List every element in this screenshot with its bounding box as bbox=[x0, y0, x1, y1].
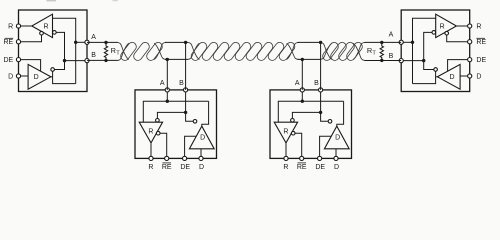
receiver U4.R enable bubble bbox=[445, 31, 449, 35]
driver U1.D triangle bbox=[28, 64, 51, 89]
wire U3 receiver non-inverting input / A rail bbox=[278, 101, 343, 122]
wire U4 D pin to driver input bbox=[460, 75, 470, 77]
twisted pair segment 2 bbox=[190, 41, 209, 62]
driver U3.D inverted output bubble bbox=[328, 120, 332, 124]
wire U4 RE pin to receiver enable bbox=[447, 35, 470, 42]
twisted pair segment 2 entry bbox=[187, 42, 199, 59]
pin U1.DE terminal bbox=[16, 58, 20, 62]
junction RT2 top dot bbox=[380, 41, 383, 44]
receiver U1.R enable bubble bbox=[40, 31, 44, 35]
svg-text:RE: RE bbox=[3, 39, 13, 46]
svg-text:B: B bbox=[179, 80, 184, 87]
wire U1 receiver non-inverting input / A rail bbox=[53, 18, 76, 83]
wire U3 B stub bbox=[320, 42, 322, 90]
wire U4 R pin to receiver output bbox=[456, 25, 469, 27]
svg-text:A: A bbox=[295, 80, 300, 87]
svg-text:R: R bbox=[283, 164, 288, 171]
junction U2 A rail dot bbox=[166, 100, 169, 103]
junction U2 B rail dot bbox=[184, 111, 187, 114]
wire stub section 1 bbox=[165, 41, 188, 43]
svg-text:RE: RE bbox=[162, 164, 172, 171]
junction U4 A rail dot bbox=[411, 41, 414, 44]
receiver U3.R enable bubble bbox=[291, 131, 295, 135]
pin U1.R terminal bbox=[16, 24, 20, 28]
wire U4 receiver inverting input to B rail bbox=[424, 32, 432, 60]
wire U1 driver inverted output to B rail bbox=[54, 61, 64, 70]
svg-text:RE: RE bbox=[297, 164, 307, 171]
svg-text:B: B bbox=[389, 53, 394, 60]
wire U2 B internal bbox=[185, 90, 187, 113]
svg-text:D: D bbox=[199, 164, 204, 171]
pin U4.A terminal bbox=[399, 40, 403, 44]
receiver U2.R triangle bbox=[139, 122, 162, 143]
pin U3.D terminal bbox=[334, 156, 338, 160]
svg-text:D: D bbox=[200, 135, 205, 142]
svg-text:DE: DE bbox=[315, 164, 325, 171]
driver U4.D inverted output bubble bbox=[434, 68, 438, 72]
receiver U3.R triangle bbox=[274, 122, 297, 143]
pin U3.B terminal bbox=[319, 88, 323, 92]
driver U1.D inverted output bubble bbox=[51, 68, 55, 72]
wire U2 R pin to receiver output bbox=[150, 143, 152, 159]
transceiver U1 body bbox=[19, 10, 88, 92]
wire U1 B internal bbox=[65, 60, 88, 62]
junction U3 A rail dot bbox=[301, 100, 304, 103]
svg-text:R: R bbox=[43, 23, 48, 30]
wire U2 D pin to driver input bbox=[200, 149, 202, 159]
wire U2 B stub bbox=[185, 42, 187, 90]
svg-text:DE: DE bbox=[180, 164, 190, 171]
svg-text:R: R bbox=[8, 23, 13, 30]
svg-text:D: D bbox=[8, 73, 13, 80]
wire U4 A internal bbox=[401, 41, 412, 43]
wire U3 receiver inverting input to B rail bbox=[292, 112, 320, 118]
twisted pair segment 1 exit bbox=[154, 42, 166, 59]
svg-text:B: B bbox=[314, 80, 319, 87]
wire U1 RE pin to receiver enable bbox=[19, 35, 42, 42]
wire U1 A internal bbox=[76, 41, 87, 43]
wire U3 driver output loop to A rail bbox=[337, 101, 344, 126]
junction U1 B rail dot bbox=[63, 59, 66, 62]
wire U3 B internal bbox=[320, 90, 322, 113]
pin U4.D terminal bbox=[468, 74, 472, 78]
wire U2 A internal bbox=[166, 90, 168, 101]
svg-text:A: A bbox=[160, 80, 165, 87]
wire U1 driver output loop to A rail bbox=[51, 76, 53, 78]
junction RT1 bottom dot bbox=[104, 59, 107, 62]
wire U3 D pin to driver input bbox=[335, 149, 337, 159]
resistor RT2 termination bbox=[380, 42, 383, 60]
pin U1.D terminal bbox=[16, 74, 20, 78]
svg-text:R: R bbox=[148, 164, 153, 171]
svg-text:A: A bbox=[91, 34, 96, 41]
wire U3 R pin to receiver output bbox=[285, 143, 287, 159]
svg-text:R: R bbox=[476, 23, 481, 30]
receiver U2.R enable bubble bbox=[156, 131, 160, 135]
svg-text:D: D bbox=[335, 135, 340, 142]
receiver U4.R inverting input bubble bbox=[432, 31, 436, 35]
wire U1 D pin to driver input bbox=[19, 75, 29, 77]
svg-text:T: T bbox=[116, 50, 120, 56]
receiver U1.R triangle bbox=[32, 14, 53, 37]
receiver U3.R inverting input bubble bbox=[291, 119, 295, 123]
svg-text:D: D bbox=[334, 164, 339, 171]
stray mark top (cropped remnant) bbox=[113, 0, 119, 1]
wire U4 receiver non-inverting input / A rail bbox=[413, 18, 436, 83]
pin U1.A terminal bbox=[85, 40, 89, 44]
driver U2.D inverted output bubble bbox=[193, 120, 197, 124]
junction U1 A rail dot bbox=[74, 41, 77, 44]
pin U4.DE terminal bbox=[468, 58, 472, 62]
wire U2 receiver non-inverting input / A rail bbox=[143, 101, 208, 122]
junction RT1 top dot bbox=[104, 41, 107, 44]
wire U4 DE pin to driver enable bbox=[448, 60, 470, 72]
wire U3 DE pin to driver enable bbox=[320, 136, 332, 158]
twisted pair segment 1 bbox=[119, 41, 138, 62]
pin U2.B terminal bbox=[184, 88, 188, 92]
junction U4 B rail dot bbox=[422, 59, 425, 62]
twisted pair segment 1 entry bbox=[117, 42, 129, 59]
pin U1.B terminal bbox=[85, 59, 89, 63]
wire U2 A stub bbox=[166, 59, 168, 90]
svg-text:R: R bbox=[111, 46, 116, 55]
stray mark top-left (cropped remnant) bbox=[47, 0, 57, 1]
wire U4 driver output loop to A rail bbox=[436, 76, 438, 78]
wire U4 driver inverted output to B rail bbox=[424, 61, 434, 70]
svg-text:D: D bbox=[449, 74, 454, 81]
pin U2.RE terminal bbox=[165, 156, 169, 160]
svg-text:DE: DE bbox=[476, 57, 486, 64]
wire stub section 2 bbox=[298, 41, 322, 43]
wire U3 A internal bbox=[301, 90, 303, 101]
junction U3 B rail dot bbox=[319, 111, 322, 114]
driver U4.D triangle bbox=[437, 64, 460, 89]
wire U4 B internal bbox=[401, 60, 424, 62]
svg-text:A: A bbox=[389, 31, 394, 38]
pin U2.A terminal bbox=[165, 88, 169, 92]
receiver U4.R triangle bbox=[436, 14, 457, 37]
transceiver U4 body bbox=[401, 10, 470, 92]
wire bus A left lead bbox=[87, 41, 118, 43]
driver U2.D triangle bbox=[189, 126, 214, 149]
twisted pair segment 3 exit bbox=[353, 42, 365, 59]
wire U2 RE pin to receiver enable bbox=[160, 133, 167, 158]
svg-text:DE: DE bbox=[3, 57, 13, 64]
wire bus B right lead bbox=[365, 59, 402, 61]
pin U2.DE terminal bbox=[183, 156, 187, 160]
pin U3.DE terminal bbox=[318, 156, 322, 160]
pin U3.A terminal bbox=[300, 88, 304, 92]
driver U3.D triangle bbox=[324, 126, 349, 149]
pin U2.D terminal bbox=[199, 156, 203, 160]
wire bus A right lead bbox=[365, 41, 402, 43]
pin U3.R terminal bbox=[284, 156, 288, 160]
svg-text:D: D bbox=[34, 74, 39, 81]
wire U1 R pin to receiver output bbox=[19, 25, 32, 27]
transceiver U3 body bbox=[270, 90, 352, 158]
twisted pair segment 3 entry bbox=[320, 42, 332, 59]
pin U2.R terminal bbox=[149, 156, 153, 160]
wire U2 driver inverted output to B rail bbox=[186, 112, 194, 121]
receiver U1.R inverting input bubble bbox=[53, 31, 57, 35]
transceiver U2 body bbox=[135, 90, 217, 158]
junction RT2 bottom dot bbox=[380, 59, 383, 62]
svg-text:B: B bbox=[91, 52, 96, 59]
wire U2 DE pin to driver enable bbox=[185, 136, 197, 158]
twisted pair segment 2 exit bbox=[287, 42, 299, 59]
pin U4.RE terminal bbox=[468, 40, 472, 44]
twisted pair segment 3 bbox=[321, 41, 340, 62]
wire U1 DE pin to driver enable bbox=[19, 60, 41, 72]
wire U1 receiver inverting input to B rail bbox=[56, 32, 64, 60]
resistor RT1 termination bbox=[104, 42, 107, 60]
pin U1.RE terminal bbox=[16, 40, 20, 44]
wire U2 receiver inverting input to B rail bbox=[157, 112, 185, 118]
receiver U2.R inverting input bubble bbox=[156, 119, 160, 123]
svg-text:R: R bbox=[283, 129, 288, 136]
pin U4.R terminal bbox=[468, 24, 472, 28]
svg-text:RE: RE bbox=[476, 39, 486, 46]
svg-text:D: D bbox=[476, 73, 481, 80]
svg-text:R: R bbox=[148, 129, 153, 136]
pin U3.RE terminal bbox=[300, 156, 304, 160]
wire U2 driver output loop to A rail bbox=[202, 101, 209, 126]
wire bus B left lead bbox=[87, 59, 118, 61]
wire U3 A stub bbox=[301, 59, 303, 90]
wire U3 RE pin to receiver enable bbox=[295, 133, 302, 158]
pin U4.B terminal bbox=[399, 59, 403, 63]
wire U3 driver inverted output to B rail bbox=[321, 112, 329, 121]
svg-text:R: R bbox=[440, 23, 445, 30]
svg-text:T: T bbox=[372, 50, 376, 56]
